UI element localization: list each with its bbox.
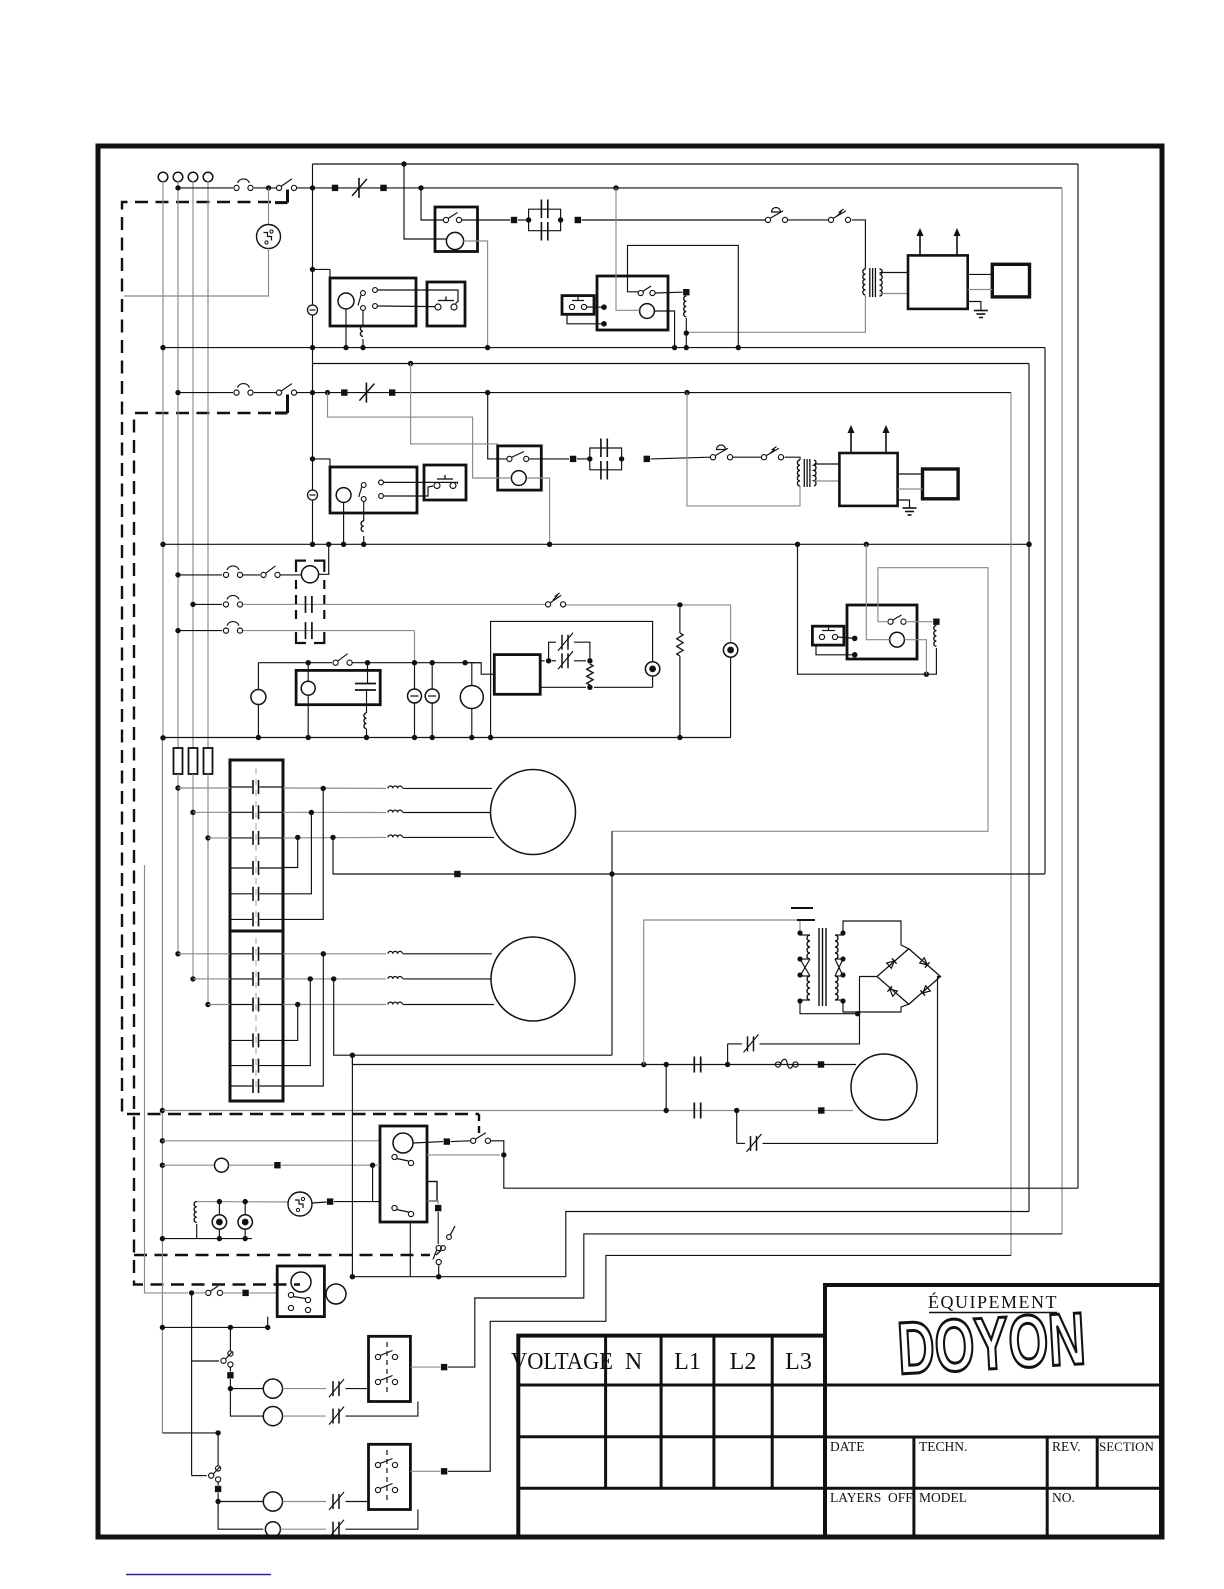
row1 top line [313, 163, 1079, 165]
relay R1a [435, 207, 478, 252]
bridge DC- path [858, 977, 877, 1044]
R2b coil [890, 632, 905, 647]
indicator lamp LP2 [431, 663, 433, 689]
R2b contact [888, 619, 893, 624]
NC [332, 1522, 334, 1537]
R2b pins [852, 636, 858, 642]
R1b output connector [655, 291, 683, 294]
wire N vertical [162, 181, 164, 738]
push button box P1 [427, 282, 465, 326]
wire L2 below fuse [192, 774, 194, 979]
sub2 lamp line 2 [218, 1502, 263, 1530]
door contacts parallel caps row1 [529, 209, 561, 220]
C3 to bus2 [319, 544, 329, 574]
riser x612 [611, 831, 613, 1055]
wire to transformer TR1 [852, 220, 866, 269]
return wire x1062 [1061, 188, 1063, 1234]
svg-text:L3: L3 [785, 1349, 812, 1375]
wire y1055 [334, 979, 612, 1055]
relay R1b [597, 276, 668, 330]
connector [332, 185, 338, 191]
dashed boundary bottom segment [134, 1254, 430, 1256]
supply terminal L2 [188, 172, 198, 182]
overload arc31 [223, 572, 228, 577]
indicator light L3b [727, 605, 731, 643]
timer motor row1 [268, 188, 270, 225]
bridge DC+ path [938, 977, 941, 1144]
R1a coil [446, 232, 463, 249]
row2 top line [312, 363, 1029, 365]
connector [644, 456, 650, 462]
wire to switches row2 [651, 457, 710, 459]
K1 loopback 3 [283, 788, 323, 919]
wire [788, 219, 828, 221]
sub2 feed line [162, 1432, 218, 1434]
R2a coil feed [328, 393, 512, 478]
NC contact lower [736, 1111, 738, 1144]
TR1 primary return [686, 296, 865, 332]
A1 pins [373, 288, 378, 293]
R1a coil feed [404, 164, 447, 239]
wire L3 vertical [207, 181, 209, 748]
R2a contact [507, 456, 512, 461]
R1b overload coil [684, 296, 687, 317]
contactor box K2 [230, 931, 283, 1101]
push button box P2 [424, 465, 466, 500]
connector [570, 456, 576, 462]
connector [380, 185, 386, 191]
lamp L6a [263, 1379, 282, 1398]
lamp L6b [263, 1407, 282, 1426]
relay box R6b [369, 1336, 411, 1401]
row3 line1 feed [178, 574, 222, 576]
P1b wires [587, 306, 605, 308]
K2 loopback 3 [283, 954, 323, 1086]
thermal switch row1 [276, 185, 281, 190]
R2b overload return [798, 544, 937, 674]
control box A2 [330, 467, 417, 513]
relay switch r2 [761, 455, 766, 460]
svg-text:SECTION: SECTION [1099, 1439, 1155, 1454]
wire to transformer TR2 [785, 457, 800, 460]
svg-text:DATE: DATE [830, 1439, 865, 1454]
K1 loopback 1 [283, 837, 298, 867]
B4 capacitor [355, 683, 376, 685]
row1 main line [297, 187, 1062, 189]
connector [511, 217, 517, 223]
A2 heater [363, 502, 365, 522]
lamp L6d [265, 1522, 280, 1537]
electrode arrow [919, 231, 921, 255]
R2a output [529, 458, 569, 460]
motor M2 [491, 937, 575, 1021]
R2a box feed [411, 364, 498, 444]
NC [332, 1381, 334, 1396]
wire to switches [582, 219, 766, 221]
overload arc32 [223, 602, 228, 607]
ignition module IG1 [908, 255, 968, 309]
K2 loopback 1 [283, 1005, 298, 1041]
connector [575, 217, 581, 223]
P2b wires [838, 637, 855, 638]
resistor R5v [587, 664, 593, 685]
thermostat switch T2 [710, 455, 715, 460]
A1 switch [361, 291, 366, 296]
dashed contactor aux box DB [296, 561, 306, 572]
row1 bottom bus [163, 347, 1045, 349]
push box P1b [562, 296, 594, 315]
T2 secondary to bridge top [843, 921, 909, 949]
K2 output row1 [283, 953, 386, 955]
R5 side notch [427, 1182, 437, 1202]
return wire x1029 [1028, 364, 1030, 1212]
sub1 drop [229, 1327, 231, 1351]
row3 line3 [243, 630, 415, 632]
svg-text:L1: L1 [674, 1349, 701, 1375]
R1b coil [640, 304, 655, 319]
cabinet dashed boundary D2 [134, 413, 300, 1285]
R2b coil return [904, 640, 926, 675]
door switch S5 [471, 1138, 476, 1143]
R5 contact2 [392, 1205, 397, 1210]
K1 output row2 [283, 811, 386, 813]
spark transformer TR1 [863, 269, 866, 295]
sub1 lamp line 1 [230, 1388, 263, 1390]
flame sensor box SB2 [923, 469, 959, 499]
svg-text:NO.: NO. [1052, 1490, 1075, 1505]
row3 bottom bus [162, 737, 730, 739]
R5 contact1 [392, 1154, 397, 1159]
sub2 transfer switch [216, 1466, 221, 1471]
T2 secondary to bridge bottom [843, 1001, 909, 1012]
K2 feed wires [178, 953, 230, 955]
riser between blower lines [665, 1065, 667, 1111]
A2 coil to bus [343, 502, 345, 544]
R1b coil feed x616 [616, 188, 640, 310]
riser x352 [351, 1055, 353, 1277]
title divider [825, 1384, 1161, 1387]
svg-text:TECHN.: TECHN. [919, 1439, 967, 1454]
relay R2a [498, 446, 542, 490]
R1b switch feed loop [628, 245, 739, 347]
door switch on dashed boundary [441, 1246, 446, 1251]
breaker row2 [365, 383, 367, 403]
A1 heater [362, 311, 364, 327]
blower motor MB [851, 1054, 917, 1120]
B4 coil [301, 681, 315, 695]
svg-text:N: N [625, 1349, 642, 1375]
thermostat switch T1 [765, 217, 770, 222]
K2 contacts [252, 947, 254, 961]
R1a coil return [464, 241, 488, 348]
row4 line continues [352, 662, 481, 664]
aux contact coil C3 [301, 566, 318, 583]
row3 line3 feed [178, 630, 222, 632]
contactor box K1 [230, 760, 283, 931]
S5 lamp line [162, 1164, 214, 1166]
indicator lamp LP1 [414, 663, 416, 689]
R1b pins [601, 304, 607, 310]
fuse F1 [174, 748, 183, 774]
riser x372 [372, 1165, 374, 1201]
relay R5 [380, 1126, 427, 1222]
switch31 [261, 572, 266, 577]
row2 main line [297, 392, 1011, 394]
S5 jog [491, 1141, 504, 1155]
sub1 transfer switch [228, 1351, 233, 1356]
row3 line2 [243, 603, 545, 605]
wire L1 below fuse [177, 774, 179, 954]
relay R2b [847, 605, 917, 659]
resistor to bus [679, 608, 681, 633]
ground IG1 [968, 302, 981, 311]
sub2 lamp line 1 [218, 1501, 263, 1503]
line3 drop [414, 631, 416, 663]
BOX5 output [540, 660, 544, 662]
R6a lower pin link [267, 1317, 269, 1328]
hyperlink underline [126, 1574, 271, 1576]
A1 feed [313, 268, 331, 270]
R6a aux circle [326, 1284, 346, 1304]
aux motor MA [471, 663, 473, 686]
R1b contact [638, 290, 643, 295]
breaker row1 [358, 178, 360, 198]
R1b coil return [654, 311, 674, 348]
staircase D [448, 1255, 1011, 1471]
wire [518, 219, 529, 221]
wire L3 below fuse [207, 774, 209, 1005]
TR1 secondary wires [880, 272, 909, 274]
R6a contacts [288, 1292, 293, 1297]
K2 linkage [255, 938, 257, 1092]
transformer feed [644, 920, 800, 1065]
sub1 lamp line 2 [230, 1389, 263, 1417]
TR2 secondary wires [814, 463, 839, 465]
R2a coil return [527, 478, 550, 544]
wire L1 vertical [177, 181, 179, 748]
wire [312, 1202, 327, 1203]
switch on x438 [437, 1212, 439, 1244]
wire [733, 456, 761, 458]
R6a coil [291, 1272, 311, 1292]
S6 feed vertical x146 [145, 865, 189, 1293]
row2 bottom bus [163, 543, 1029, 545]
switch41 [333, 660, 338, 665]
R2b overload coil [934, 626, 937, 647]
flame sensor box SB1 [992, 264, 1029, 297]
R2b output connector [906, 621, 933, 623]
T2 primary bottom link [800, 1001, 858, 1014]
K1 contacts [252, 780, 254, 794]
R2a coil [511, 471, 526, 486]
gas lamp 1 [218, 1202, 220, 1215]
supply terminal L1 [173, 172, 183, 182]
A1 coil [338, 293, 354, 309]
light return loop [491, 621, 653, 737]
A2 coil [336, 488, 351, 503]
relay switch r1 [828, 217, 833, 222]
transfer feed 2 [191, 1361, 193, 1476]
aux cap contact on line3 [305, 622, 307, 639]
fuse F3 [204, 748, 213, 774]
fuse F2 [189, 748, 198, 774]
wire y874 [333, 837, 1045, 874]
row4 line [258, 662, 332, 664]
blower line 1 [352, 1055, 856, 1064]
ignition module IG2 [839, 453, 897, 506]
motor M1 [491, 770, 576, 855]
supply terminal L3 [203, 172, 213, 182]
polarity bars above T2 [791, 907, 813, 909]
K2 output row3 [283, 1004, 386, 1006]
wire [254, 392, 276, 394]
wire L2 vertical [192, 181, 194, 748]
R5 coil [393, 1133, 413, 1153]
lamp L6c [263, 1492, 282, 1511]
voltage table [518, 1336, 825, 1537]
S5 line to relay R5 [162, 1140, 380, 1142]
staircase C [448, 1234, 1062, 1367]
K1 linkage [255, 768, 257, 923]
R2b switch wire to x988 [612, 568, 988, 832]
electrode arrow [956, 231, 958, 255]
R5 contact2 output [427, 1154, 500, 1156]
vertical bus x312 [312, 164, 314, 544]
A1 coil to bus [345, 309, 347, 348]
relay switch r3 [546, 602, 551, 607]
aux cap contact on line2 [305, 596, 307, 613]
S5 bottom wire [352, 1276, 565, 1278]
door contacts parallel caps row2 [590, 448, 622, 459]
cabinet dashed boundary D1 [122, 202, 479, 1114]
row3 line2 feed [193, 603, 222, 605]
electrode arrow [850, 428, 852, 453]
NC contact pair [549, 642, 556, 661]
cluster coil [194, 1202, 197, 1223]
row2 line feed [178, 392, 233, 394]
sub1 switch [206, 1290, 211, 1295]
sensor wires [968, 273, 993, 275]
gas valve box B4 [296, 670, 380, 704]
electrode arrow [885, 428, 887, 453]
K1 loopback 2 [283, 813, 311, 894]
relay box R6c [369, 1444, 411, 1509]
R6c output [410, 1470, 440, 1472]
A2 switch [361, 483, 366, 488]
R2a switch feed [488, 393, 507, 459]
push box P2b [812, 626, 844, 645]
indicator light L3a [652, 676, 654, 687]
dashed drop to door switch S5 [478, 1114, 480, 1136]
door bracket row2 [286, 395, 289, 414]
R1a contact [443, 217, 448, 222]
wire [254, 187, 276, 189]
K1 output row3 [283, 836, 386, 839]
control module BOX5 [465, 663, 494, 675]
thermal switch row2 [276, 390, 281, 395]
cluster bottom wire [162, 1238, 252, 1240]
S5 heater cluster top wire [197, 1201, 288, 1203]
P2 wires [384, 482, 458, 484]
neutral link symbol row1 [308, 305, 318, 315]
R1a output wire [462, 219, 511, 221]
svg-text:REV.: REV. [1052, 1439, 1081, 1454]
control transformer T2 [797, 930, 802, 935]
svg-text:MODEL: MODEL [919, 1490, 967, 1505]
TR2 primary return [687, 393, 800, 506]
sub2 drop [217, 1433, 219, 1466]
svg-text:DOYON: DOYON [895, 1297, 1087, 1390]
door bracket row1 [286, 190, 289, 203]
P1 wires [378, 290, 459, 304]
svg-text:LAYERS OFF: LAYERS OFF [830, 1490, 913, 1505]
blower line 2 [162, 1110, 853, 1112]
S6 line y1327 [162, 1326, 267, 1328]
staircase B [566, 1212, 1029, 1277]
return wire x1078 [1077, 164, 1079, 1188]
row4 pilot circle [251, 690, 266, 705]
K2 output row2 [283, 978, 386, 980]
gas lamp 2 [244, 1202, 246, 1215]
border frame [98, 146, 1162, 1537]
bridge rectifier BR1 [877, 949, 941, 1004]
neutral link symbol row2 [308, 490, 318, 500]
connector [389, 389, 395, 395]
NC contact line to bridge [727, 1044, 729, 1065]
K2 loopback 2 [283, 979, 310, 1066]
A2 feed [312, 458, 330, 460]
return wire x1011 [1010, 393, 1012, 1256]
B4 heater [366, 690, 368, 713]
R5 bottom output [409, 1222, 411, 1277]
svg-text:L2: L2 [730, 1349, 757, 1375]
K1 feed wires [178, 787, 230, 789]
supply terminal N [158, 172, 168, 182]
control box A1 [330, 278, 416, 326]
NC [332, 1494, 334, 1509]
wire [540, 686, 586, 688]
svg-text:VOLTAGE: VOLTAGE [511, 1349, 613, 1375]
row1 line L1 feed [178, 187, 233, 189]
overload arc33 [223, 628, 228, 633]
transfer feed x191 [191, 1293, 193, 1361]
spark transformer TR2 [797, 460, 800, 486]
return wire x1045 [1044, 348, 1046, 874]
connector [341, 389, 347, 395]
A2 pins [379, 480, 384, 485]
NC [332, 1409, 334, 1424]
R6b output [410, 1366, 440, 1368]
sub1 feed line [189, 1290, 194, 1295]
wire [223, 1292, 242, 1294]
S5 lamp [215, 1158, 229, 1172]
spark generator symbol [288, 1192, 312, 1216]
line A return [504, 1155, 1078, 1188]
sensor wires [898, 473, 923, 475]
fuse inline [775, 1062, 780, 1067]
R1a switch feed [421, 188, 443, 220]
R5 right lower output [427, 1200, 435, 1202]
title block DOYON box [825, 1285, 1161, 1537]
overload arc row1 [234, 185, 239, 190]
DOYON logo [895, 1297, 1087, 1390]
overload arc row2 [234, 390, 239, 395]
K1 output row1 [283, 787, 386, 789]
relay R6a [277, 1266, 324, 1317]
R5 output top [413, 1142, 443, 1143]
R2b coil feed [866, 544, 889, 639]
ground IG2 [898, 500, 910, 508]
